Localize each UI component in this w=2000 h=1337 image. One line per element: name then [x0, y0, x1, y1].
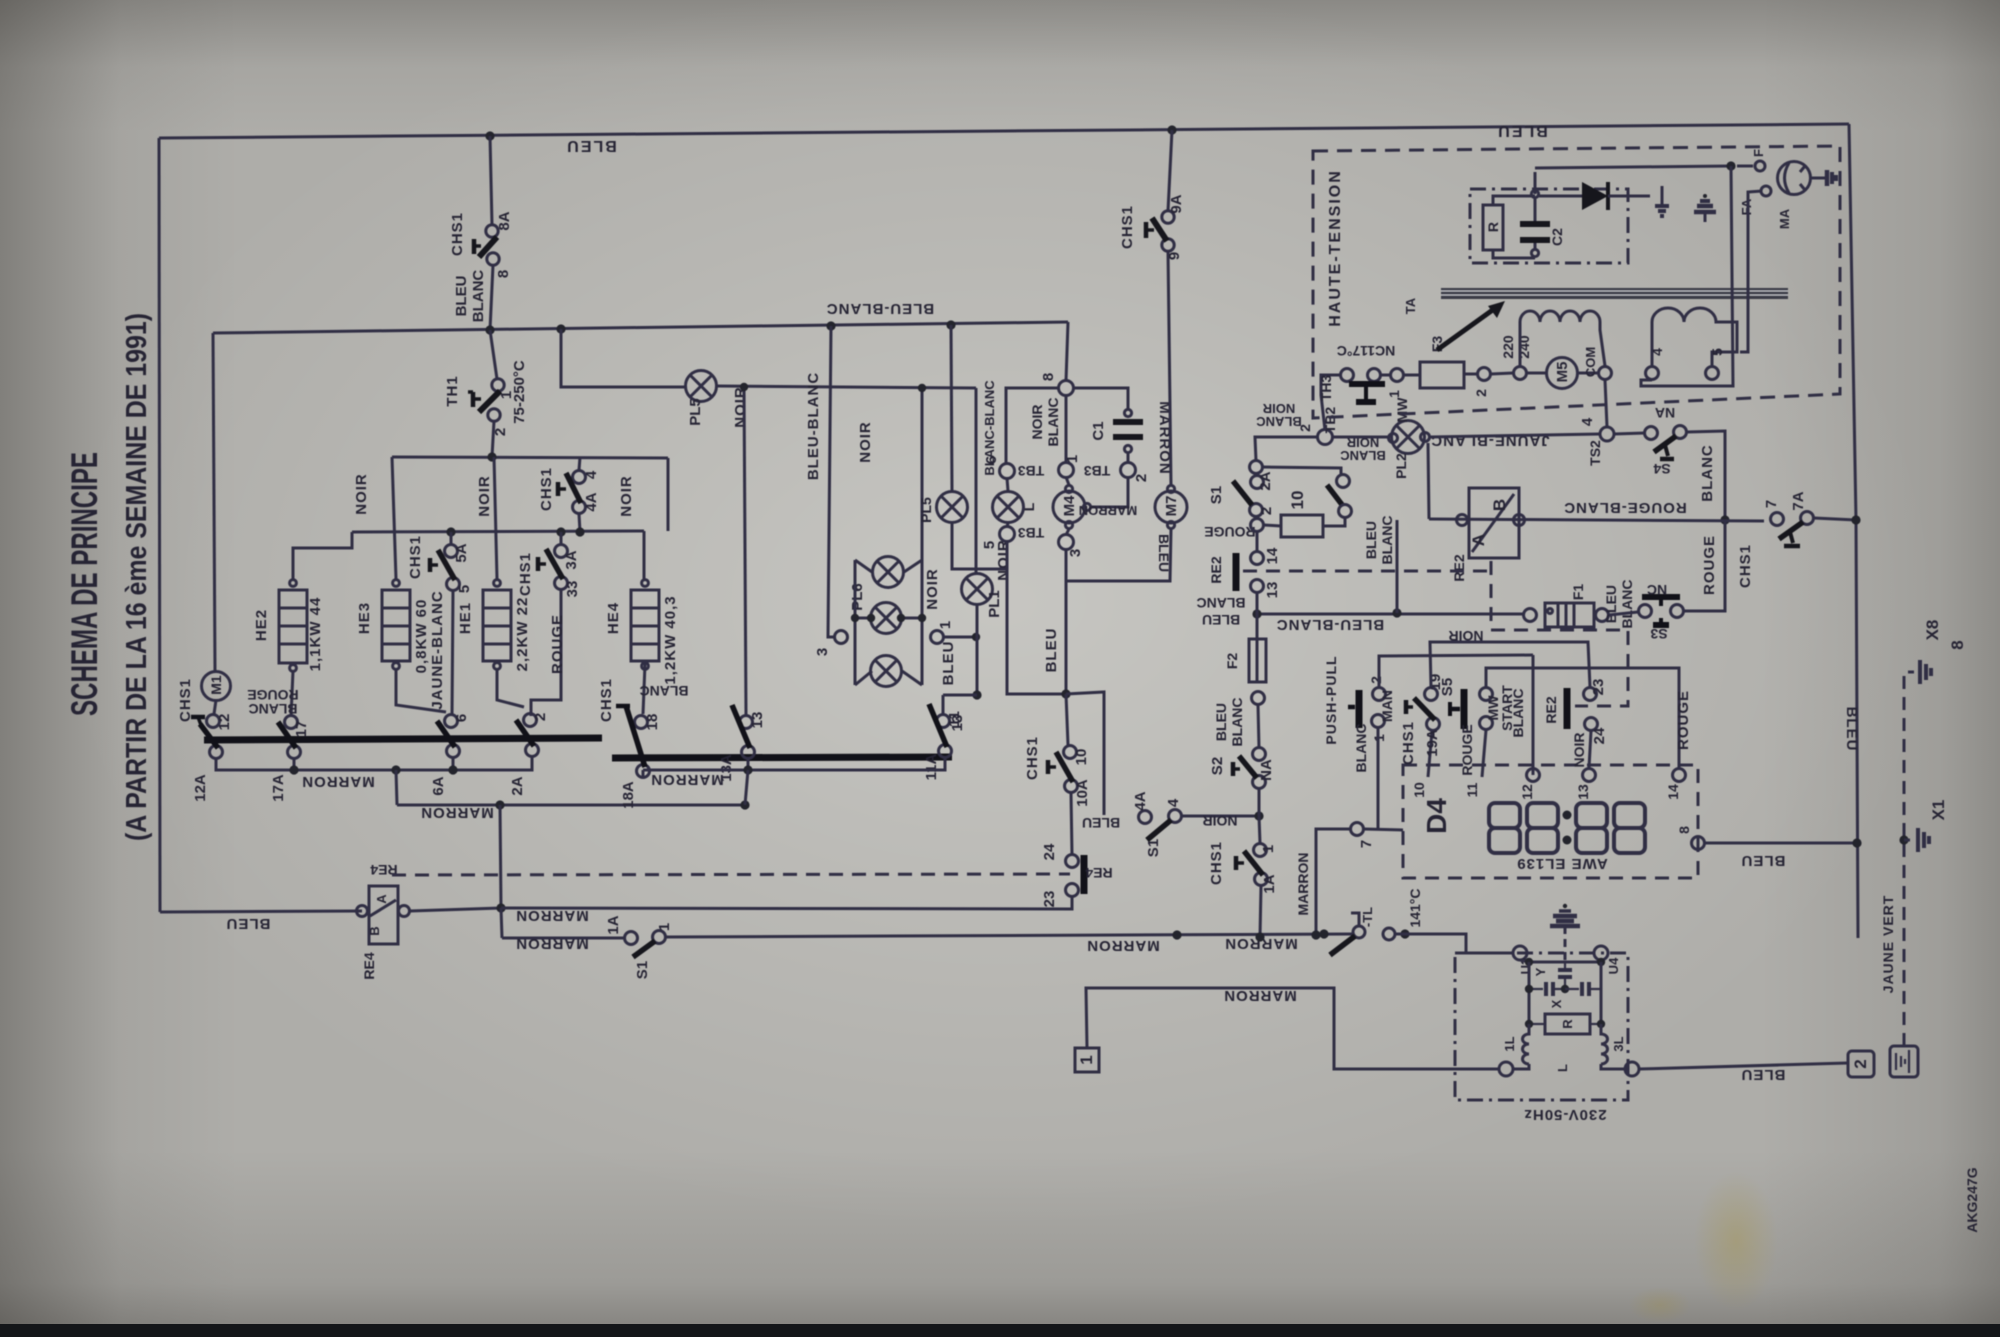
motor M7: [1155, 491, 1187, 523]
svg-text:NA: NA: [1655, 405, 1675, 421]
svg-text:X: X: [1549, 999, 1564, 1008]
node x1259 y816: [1254, 811, 1263, 820]
ground (MA right): [1810, 177, 1827, 180]
terminal TB3-3: [1059, 535, 1074, 550]
inductor 3L: [1601, 1024, 1608, 1064]
svg-text:CHS1: CHS1: [449, 212, 466, 256]
svg-text:TS2: TS2: [1587, 440, 1603, 466]
display 88:88 digit4: [1614, 803, 1645, 853]
wire PL6 parallel right rail: [921, 560, 924, 685]
svg-text:220: 220: [1500, 335, 1516, 359]
display colon: [1563, 811, 1572, 820]
svg-text:24: 24: [1591, 727, 1608, 744]
svg-text:A: A: [374, 894, 389, 904]
svg-text:33: 33: [564, 581, 581, 598]
svg-text:RE2: RE2: [1543, 696, 1559, 723]
terminal PE box: [1890, 1046, 1918, 1077]
switch bus1 ganged CHS1 12A 17A 6A 2A: [204, 738, 602, 740]
svg-text:2: 2: [1258, 507, 1275, 515]
svg-text:JAUNE VERT: JAUNE VERT: [1880, 895, 1896, 994]
terminal TB3-2: [1121, 463, 1136, 478]
svg-text:1: 1: [1386, 390, 1402, 398]
svg-text:C1: C1: [1090, 421, 1107, 440]
wire bus-C left end jog to HE2 top: [293, 532, 352, 579]
node y805 x500: [495, 800, 504, 809]
svg-text:SCHEMA DE PRINCIPE: SCHEMA DE PRINCIPE: [64, 452, 105, 716]
svg-text:23: 23: [1590, 679, 1607, 696]
wire PL1 bottom to junction: [976, 605, 979, 695]
wire bus-B left end down to M1: [213, 333, 215, 671]
wire TH1-2 to NOIR bus D: [492, 421, 494, 457]
wire TB2 up to TH3: [1321, 375, 1340, 430]
node x1725 ROUGE-BLANC bus: [1720, 515, 1729, 524]
svg-text:14: 14: [1665, 784, 1681, 800]
svg-text:C2: C2: [1549, 228, 1565, 246]
wire TB3-1 to M4: [1066, 477, 1069, 485]
svg-text:BLANC: BLANC: [1699, 444, 1716, 502]
node y770 17A: [289, 765, 298, 774]
svg-text:1A: 1A: [1261, 874, 1278, 893]
wire 4A to bus C: [579, 514, 580, 532]
svg-text:M1: M1: [208, 675, 224, 695]
svg-text:PUSH-PULL: PUSH-PULL: [1323, 655, 1339, 744]
node right bus y843: [1852, 838, 1861, 847]
terminal D4 pin12: [1527, 769, 1540, 782]
svg-text:BLEU: BLEU: [1843, 707, 1860, 752]
svg-text:1: 1: [1064, 455, 1081, 463]
wire x1259 y816 to 1: [1259, 816, 1260, 843]
wire 8 down to TB3-1: [1065, 395, 1068, 463]
svg-text:0,8KW 60: 0,8KW 60: [413, 599, 430, 674]
node x744 y387: [740, 383, 748, 391]
wire 4 to bus D: [579, 457, 580, 470]
node y770 13A: [743, 765, 752, 774]
terminal 2 (PUSH-PULL): [1373, 688, 1386, 701]
svg-text:MARRON: MARRON: [515, 935, 589, 952]
box HAUTE-TENSION dashed: [1313, 146, 1840, 418]
svg-text:COM: COM: [1583, 347, 1598, 377]
resistor R: [1483, 205, 1503, 250]
svg-text:23: 23: [1041, 891, 1058, 908]
transformer primary winding: [1520, 311, 1605, 366]
svg-text:BLANC: BLANC: [1045, 398, 1061, 447]
node bus-C 3A column: [556, 527, 565, 536]
svg-text:NC117°C: NC117°C: [1337, 343, 1396, 359]
svg-text:BLEU: BLEU: [1741, 1066, 1786, 1083]
display 88:88 digit2: [1527, 803, 1558, 853]
relay RE2 contact 23/24 (D4): [1564, 688, 1571, 729]
node x501 y908: [496, 903, 505, 912]
display 88:88 digit3: [1576, 803, 1607, 853]
svg-text:BLEU: BLEU: [453, 276, 470, 317]
svg-text:A: A: [1469, 534, 1488, 546]
svg-text:X8: X8: [1923, 620, 1942, 641]
switch CHS1 8A/8: [486, 225, 498, 237]
svg-text:13: 13: [1264, 582, 1281, 599]
node x977 y695: [972, 690, 981, 699]
wire x1397 up BLEU BLANC to ROUGE-BLANC bus: [1396, 520, 1399, 613]
wire bus2 MARRON return y770: [642, 770, 645, 778]
svg-text:CHS1: CHS1: [1737, 544, 1754, 588]
capacitor C2: [1531, 190, 1538, 197]
svg-text:240: 240: [1516, 335, 1532, 359]
svg-text:ROUGE-BLANC: ROUGE-BLANC: [1563, 499, 1687, 516]
svg-text:3L: 3L: [1611, 1036, 1626, 1051]
svg-text:S4: S4: [1653, 461, 1670, 477]
heater HE3 0,8KW 60: [382, 590, 410, 661]
svg-text:BLEU: BLEU: [1496, 122, 1548, 139]
wire PL6 parallel left rail: [854, 560, 857, 685]
svg-text:RE4: RE4: [361, 952, 377, 979]
node bus-B x951: [946, 320, 955, 329]
svg-text:2: 2: [1133, 474, 1150, 482]
heater HE4 1,2KW 40,3: [631, 590, 659, 661]
wire M7 up to CHS1-9: [1168, 251, 1171, 485]
svg-text:3: 3: [814, 648, 831, 656]
terminal TB3-1: [1059, 463, 1074, 478]
svg-text:TB3: TB3: [1018, 525, 1045, 541]
svg-text:NOIR: NOIR: [1262, 401, 1295, 416]
svg-text:D4: D4: [1421, 798, 1452, 834]
svg-text:BLEU: BLEU: [1082, 815, 1120, 831]
svg-text:BLANC: BLANC: [1256, 414, 1302, 429]
switch CHS1 4A/4: [573, 471, 586, 484]
svg-text:13: 13: [1575, 784, 1591, 800]
svg-text:TA: TA: [1403, 297, 1418, 314]
wire 13A column down to y805: [745, 770, 748, 805]
wire PL2 to TS2: [1430, 434, 1600, 437]
svg-text:PL5: PL5: [918, 497, 934, 523]
svg-text:2: 2: [1297, 424, 1313, 432]
svg-text:BLANC: BLANC: [1229, 698, 1245, 747]
lamp PL1: [962, 574, 993, 605]
wire MARRON bus y936: [666, 934, 1353, 937]
terminal D4 pin8: [1692, 837, 1705, 850]
svg-text:1: 1: [1077, 1055, 1096, 1064]
svg-text:8A: 8A: [496, 211, 513, 230]
svg-text:JAUNE-BLANC: JAUNE-BLANC: [429, 590, 446, 709]
svg-text:BLANC: BLANC: [1353, 724, 1369, 773]
svg-text:BLEU: BLEU: [1363, 521, 1379, 559]
svg-text:MARRON: MARRON: [1086, 937, 1160, 954]
svg-text:MARRON: MARRON: [1079, 503, 1138, 518]
wire bus-C to 3A: [560, 532, 563, 544]
wire 14 up to 10-box terminal: [1256, 532, 1259, 551]
fuse F1: [1524, 609, 1537, 622]
wire bus-B x831 down to PL6-3: [828, 326, 834, 637]
svg-text:R: R: [1485, 222, 1501, 232]
svg-text:Y: Y: [1533, 967, 1548, 976]
wire 10A down to RE4 24: [1071, 793, 1072, 855]
svg-text:1: 1: [1260, 845, 1277, 853]
wire y695 to bus2-11: [943, 694, 977, 697]
motor M1: [202, 672, 231, 701]
svg-text:CHS1: CHS1: [177, 678, 194, 722]
terminal 8: [1059, 381, 1074, 396]
svg-text:CHS1: CHS1: [1400, 721, 1417, 765]
wire C1 to TB3-2: [1127, 453, 1130, 463]
wire x1007 down to y694: [1007, 569, 1066, 694]
fuse F3: [1420, 362, 1464, 388]
wire S1 branch down: [501, 908, 502, 938]
heater HE2 1.1KW 44: [279, 590, 307, 663]
switch CHS1 12/12A: [207, 715, 220, 728]
svg-text:HAUTE-TENSION: HAUTE-TENSION: [1327, 169, 1344, 327]
wire S4 to bus BLANC: [1687, 431, 1725, 519]
lamp PL6 top: [873, 557, 904, 588]
wire NOIR bus C: [352, 531, 644, 532]
wire x396 down to y805: [396, 770, 397, 805]
wire NOIR x744 drop to bus2-13: [744, 387, 746, 715]
wire 3 down to y694: [1065, 549, 1068, 694]
svg-text:ROUGE: ROUGE: [1459, 724, 1475, 775]
svg-text:10A: 10A: [1074, 779, 1091, 807]
svg-text:9A: 9A: [1168, 194, 1185, 213]
ground X8: [1918, 660, 1922, 684]
capacitor C1: [1124, 409, 1131, 416]
node y770 x396: [391, 765, 400, 774]
node PL6 right mid: [918, 614, 926, 622]
switch CHS1 10/10A: [1064, 746, 1077, 759]
svg-text:MAN: MAN: [1379, 690, 1395, 722]
switch TH3 NC117C: [1341, 369, 1354, 382]
wire 4 to S2 column: [1182, 815, 1259, 818]
svg-text:10: 10: [1288, 491, 1307, 510]
svg-text:S3: S3: [1650, 626, 1667, 642]
wire jog y692 to x1104: [1066, 692, 1104, 815]
svg-text:7: 7: [1358, 840, 1375, 848]
svg-text:4A: 4A: [1132, 791, 1149, 810]
svg-text:MARRON: MARRON: [1295, 853, 1311, 916]
svg-text:ROUGE: ROUGE: [247, 687, 298, 703]
svg-text:PL6: PL6: [849, 583, 866, 611]
svg-text:BLANC: BLANC: [1379, 516, 1395, 565]
svg-text:17: 17: [293, 721, 310, 738]
svg-text:5: 5: [1709, 348, 1725, 356]
switch bus2 ganged CHS1 18A 13A 11A: [612, 757, 952, 758]
wire x500 down to BLEU line: [500, 805, 501, 908]
switch CHS1 9A/9: [1168, 130, 1172, 211]
wire M7 down BLEU to x1066 column: [1066, 529, 1171, 581]
svg-text:MARRON: MARRON: [420, 804, 494, 821]
wire ROUGE-BLANC bus: [1429, 519, 1764, 521]
svg-text:BLEU: BLEU: [226, 915, 271, 932]
svg-text:7A: 7A: [1790, 491, 1807, 510]
svg-text:-TL: -TL: [1360, 907, 1375, 927]
svg-text:MW: MW: [1394, 397, 1410, 423]
node bus-C 5A column: [446, 527, 455, 536]
svg-text:75-250°C: 75-250°C: [511, 360, 528, 424]
resistor R (filter): [1545, 1014, 1590, 1034]
svg-text:4: 4: [1649, 348, 1665, 356]
wire bus-B to TH1: [490, 330, 497, 379]
svg-text:5A: 5A: [453, 543, 470, 562]
svg-text:BLANC: BLANC: [470, 270, 487, 323]
svg-text:12A: 12A: [192, 774, 209, 802]
svg-text:L: L: [1021, 502, 1037, 511]
node bus-D TH1 column: [487, 452, 496, 461]
svg-text:24: 24: [1041, 843, 1058, 860]
svg-text:10: 10: [1073, 749, 1090, 766]
switch S1 1A/1: [625, 932, 638, 945]
wire RE4 to junction x501: [410, 908, 501, 911]
svg-text:NOIR: NOIR: [732, 386, 749, 428]
svg-text:3: 3: [1067, 549, 1084, 557]
svg-text:8: 8: [1948, 640, 1967, 649]
capacitors X: [1528, 962, 1531, 1024]
wire M1 to 12: [214, 700, 216, 714]
switch TH1 1/2 thermostat: [492, 379, 504, 391]
terminal 1 MAN (BLANC): [1372, 715, 1385, 728]
wire 33 down ROUGE to bus1-2: [531, 590, 561, 716]
svg-text:(A PARTIR DE LA 16 ème SEMAINE: (A PARTIR DE LA 16 ème SEMAINE DE 1991): [121, 313, 153, 841]
switch CHS1 17/17A: [285, 716, 298, 729]
wire bus-C to 5A: [450, 532, 453, 544]
wire bus-B x951 down to PL5 lower: [951, 325, 952, 492]
wire x976 down to PL1: [975, 388, 978, 574]
wire MARRON y805: [397, 804, 745, 807]
svg-text:L: L: [1555, 1064, 1570, 1072]
wire FA to secondary: [1740, 191, 1762, 352]
svg-text:BLEU: BLEU: [1213, 703, 1229, 741]
svg-text:11A: 11A: [923, 753, 940, 780]
svg-text:8: 8: [1040, 373, 1057, 381]
switch CHS1 6/6A: [445, 715, 458, 728]
svg-text:141°C: 141°C: [1407, 888, 1423, 927]
svg-text:BLEU: BLEU: [940, 641, 957, 686]
svg-text:F2: F2: [1224, 653, 1240, 670]
svg-text:MA: MA: [1777, 208, 1792, 229]
svg-text:BLEU-BLANC: BLEU-BLANC: [826, 300, 934, 317]
svg-text:5: 5: [981, 541, 998, 549]
svg-text:1: 1: [656, 923, 673, 931]
terminal box 1: [1075, 1048, 1099, 1072]
svg-text:B: B: [1490, 499, 1509, 511]
svg-text:HE4: HE4: [605, 602, 622, 634]
switch CHS1 3A/33: [555, 545, 568, 558]
svg-text:230V-50Hz: 230V-50Hz: [1523, 1106, 1606, 1123]
node bus x1177: [1172, 930, 1181, 939]
lamp PL5 (upper): [686, 371, 717, 402]
svg-text:NOIR: NOIR: [1203, 813, 1238, 829]
svg-text:S5: S5: [1439, 678, 1456, 696]
node bus-C 4A column: [575, 527, 584, 536]
wire JAUNE VERT dashed: [1904, 672, 1914, 1046]
svg-text:2A: 2A: [509, 776, 526, 795]
svg-text:18: 18: [644, 714, 661, 731]
ground (filter): [1563, 904, 1567, 908]
node x976 y637: [972, 633, 980, 641]
terminal TB3-5: [1000, 527, 1015, 542]
heater HE1 2,2KW 22: [483, 590, 511, 661]
svg-text:NA: NA: [1258, 759, 1275, 781]
wire 24 down to pin13: [1589, 731, 1591, 768]
wire bus-D left end down to HE3 top: [392, 457, 396, 579]
svg-text:BLEU: BLEU: [1156, 534, 1172, 572]
wire HE1 bottom to bus1-2: [497, 669, 524, 707]
node top-bus CHS1-9A column: [1167, 125, 1176, 134]
node x922 y388: [918, 384, 926, 392]
node busBB x1257: [1252, 609, 1261, 618]
dashed RE2 control line: [1243, 570, 1491, 573]
terminal filter bottom-right: [1601, 1064, 1625, 1069]
terminal TB3-6: [1000, 464, 1015, 479]
svg-text:U4: U4: [1606, 957, 1621, 974]
svg-text:CHS1: CHS1: [407, 535, 424, 579]
svg-text:4: 4: [1579, 417, 1596, 426]
svg-text:12: 12: [216, 714, 233, 731]
wire 8 to C1 drop: [1073, 388, 1128, 409]
terminal TB2: [1318, 430, 1333, 445]
wire 8 to BLANC-BLANC drop: [1006, 388, 1059, 464]
svg-text:8: 8: [495, 270, 512, 278]
ground (diode): [1661, 186, 1664, 206]
switch CHS1 18/18A: [635, 716, 648, 729]
node bus x1405: [1400, 929, 1409, 938]
box EMI filter dash-dot: [1455, 953, 1628, 1100]
svg-text:1: 1: [937, 621, 954, 629]
wire 2 up to pin12 rail: [1379, 655, 1533, 688]
resistor 10 with switch: [1262, 467, 1341, 475]
svg-text:M5: M5: [1554, 362, 1571, 383]
switch S1 4A/4: [1139, 811, 1152, 824]
svg-text:TH3: TH3: [1318, 375, 1334, 402]
wire TH3 to F3: [1381, 374, 1390, 377]
svg-text:CHS1: CHS1: [1024, 736, 1041, 780]
svg-text:1,1KW 44: 1,1KW 44: [307, 597, 324, 672]
wire filter to terminal 2: [1639, 1063, 1848, 1069]
ground (HV frame): [1703, 194, 1707, 198]
svg-text:6: 6: [453, 714, 470, 722]
wire y908 to RE4 23: [501, 896, 1072, 909]
svg-text:2: 2: [1368, 676, 1384, 684]
wire M4 right to C1 col: [1091, 477, 1128, 507]
box R-C2 dash-dot: [1470, 189, 1628, 263]
svg-text:NOIR: NOIR: [1029, 405, 1045, 440]
svg-text:RE2: RE2: [1451, 554, 1467, 581]
connector MW START: [1480, 688, 1493, 701]
svg-text:BLANC: BLANC: [1340, 448, 1386, 463]
wire terminal1 to filter: [1086, 988, 1499, 1069]
svg-text:14: 14: [1264, 547, 1281, 564]
svg-text:BLEU: BLEU: [1603, 585, 1619, 623]
lamp PL6 middle: [871, 603, 902, 634]
ground X1: [1904, 839, 1914, 842]
svg-text:X1: X1: [1929, 800, 1948, 821]
svg-text:PL5: PL5: [687, 398, 704, 426]
svg-text:12: 12: [1519, 784, 1535, 800]
switch TL thermal 141C: [1353, 926, 1365, 938]
transformer primary 220/240: [1514, 367, 1527, 380]
wire M4 to 3: [1066, 529, 1069, 535]
wire bus-D right end down to CHS1-4: [667, 458, 670, 531]
switch S4 NA: [1614, 433, 1645, 434]
lamp L: [993, 492, 1024, 523]
wire x922 down to PL6: [921, 388, 924, 560]
svg-text:7: 7: [1763, 500, 1780, 508]
wire HE4 bottom to bus2-18: [643, 664, 645, 714]
wire top BLEU bus: [159, 124, 1849, 138]
svg-text:NOIR: NOIR: [857, 421, 874, 463]
transformer secondary winding: [1652, 308, 1737, 366]
wire left border: [159, 138, 160, 912]
svg-text:MARRON: MARRON: [650, 771, 724, 788]
svg-text:ROUGE: ROUGE: [1675, 690, 1692, 750]
svg-text:MARRON: MARRON: [1223, 987, 1297, 1004]
terminal box 2: [1848, 1051, 1874, 1077]
relay RE2 contact box A/B: [1469, 488, 1519, 558]
wire x1725 down ROUGE to S3: [1684, 520, 1725, 611]
